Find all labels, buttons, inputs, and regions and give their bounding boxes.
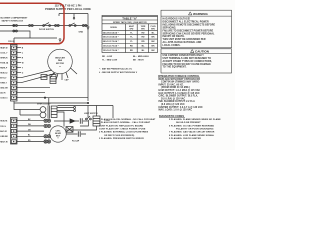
terminal contacts TB1 [13,47,14,98]
svg-text:6 FLASHES: 115 VAC POWER REVER: 6 FLASHES: 115 VAC POWER REVERSED [169,124,214,127]
wire xfmr secondary leads [57,108,74,111]
svg-text:SPD: SPD [141,28,145,30]
svg-text:24V-R: 24V-R [0,92,6,95]
table A [102,16,158,53]
svg-text:BK : HIGH: BK : HIGH [133,60,144,62]
svg-text:9 FLASHES: CHECK IGNITER: 9 FLASHES: CHECK IGNITER [169,137,201,140]
svg-text:CONT FLASH OFF: CHECK POWER /: CONT FLASH OFF: CHECK POWER / FUSE [99,128,146,131]
connector PL1 [13,25,15,27]
ground [79,32,84,34]
svg-text:INPUT: 25 VAC, 60 HZ.: INPUT: 25 VAC, 60 HZ. [159,83,184,86]
svg-text:CAP: CAP [65,79,70,82]
transformer T1 [40,107,46,113]
connector PL4 [82,25,84,27]
wire motor leads [50,68,77,80]
svg-text:TO THE EQUIPMENT.: TO THE EQUIPMENT. [163,67,187,69]
svg-text:LINE-BK: LINE-BK [0,136,8,138]
svg-text:FUSE-3A: FUSE-3A [0,62,9,65]
svg-text:RD: RD [130,50,134,52]
switch S2 [69,25,71,27]
svg-text:(FROM XFMR 40 VA MIN.): (FROM XFMR 40 VA MIN.) [161,86,190,89]
svg-text:SERVICING.: SERVICING. [163,27,177,29]
svg-text:HEAT: HEAT [129,25,135,28]
svg-text:2 FLASHES: EXTERNAL LOCKOUT (R: 2 FLASHES: EXTERNAL LOCKOUT (RETRIES [99,131,149,134]
wire main hot [0,25,88,27]
svg-text:RD: RD [141,41,145,43]
svg-text:TABLE "A": TABLE "A" [122,16,138,20]
svg-text:LIMIT SWITCH: LIMIT SWITCH [84,113,98,115]
terminal labels [0,47,9,100]
svg-text:IGNITER OUTPUT: 4.0-4.7 A @ 12: IGNITER OUTPUT: 4.0-4.7 A @ 120 VAC [159,106,204,109]
connector PL8 [44,135,47,138]
svg-text:INCLUDING REMOTE DISCONNECTS B: INCLUDING REMOTE DISCONNECTS BEFORE [163,24,216,26]
svg-text:* : MAY BE PRESENT (42-28-17): * : MAY BE PRESENT (42-28-17) [99,67,132,70]
svg-text:115 VOLT 60 HZ 1 PH: 115 VOLT 60 HZ 1 PH [55,3,82,7]
svg-text:DIAGNOSTIC CODES: DIAGNOSTIC CODES [159,115,184,118]
svg-text:CONT FLASH ON: REPLACE IFC BOA: CONT FLASH ON: REPLACE IFC BOARD [99,124,144,127]
svg-text:RD: RD [141,32,145,34]
svg-text:LOCAL CODES.: LOCAL CODES. [163,44,181,47]
node L1 bus [87,14,89,102]
terminal contacts TB2 [13,120,14,142]
svg-text:TWIN-T: TWIN-T [0,83,7,85]
integrated furnace control text [158,75,203,112]
svg-text:BK: BK [152,50,156,52]
svg-text:INTEGRATED FURNACE CONTROL: INTEGRATED FURNACE CONTROL [158,75,200,78]
blower compartment safety interlock label [1,17,29,23]
connector PL9 [44,140,47,143]
svg-text:DOOR SWITCH: DOOR SWITCH [39,29,54,31]
diode D1 arrow [70,119,75,123]
wire motor out [66,133,86,135]
svg-text:7 FLASHES: GAS VALVE CIRCUIT E: 7 FLASHES: GAS VALVE CIRCUIT ERROR [169,131,215,134]
svg-text:NEUT-W: NEUT-W [0,141,8,143]
svg-text:HAZARDOUS VOLTAGE!: HAZARDOUS VOLTAGE! [163,18,191,21]
table legend [99,56,149,74]
svg-text:FAILURE TO DO SO MAY CAUSE DAM: FAILURE TO DO SO MAY CAUSE DAMAGE [163,63,212,66]
power supply label [45,3,91,11]
svg-text:RD: RD [141,37,145,39]
svg-text:GND: GND [79,32,84,34]
svg-text:CAUTION: CAUTION [195,49,209,53]
svg-text:SPEED TAPS FOR (.) FAN MOTOR: SPEED TAPS FOR (.) FAN MOTOR [113,21,147,24]
svg-text:5 FLASHES: FLAME SENSED WHEN N: 5 FLASHES: FLAME SENSED WHEN NO FLAME [169,118,221,121]
svg-text:**: ** [57,138,59,140]
svg-text:SERVICING CAN CAUSE SEVERE PER: SERVICING CAN CAUSE SEVERE PERSONAL [163,32,216,35]
svg-text:BL : MED-HIGH: BL : MED-HIGH [133,56,149,58]
caution box W2 [161,49,232,73]
fuse F1 on feed [73,14,75,18]
svg-text:REPLACE WITH PART CNT04164 OR: REPLACE WITH PART CNT04164 OR [159,78,201,81]
resistor R2 [93,116,100,126]
svg-text:INDUCER: INDUCER [55,57,65,59]
wire diagonals to inducer [17,70,52,78]
wire xfmr feeds [14,98,88,127]
capacitor C1 box [41,75,47,80]
svg-text:ALL APPLICABLE NATIONAL AND: ALL APPLICABLE NATIONAL AND [163,41,202,44]
svg-text:120-16-170-04 *: 120-16-170-04 * [103,49,119,52]
diagnostic codes text [99,115,221,140]
capacitor C2 [78,131,80,136]
svg-text:IND. BLOWER OUTPUT: 2.2 FLA: IND. BLOWER OUTPUT: 2.2 FLA [159,100,196,103]
svg-text:THIS UNIT MUST BE GROUNDED PER: THIS UNIT MUST BE GROUNDED PER [163,39,206,41]
capacitor C3 [80,118,82,123]
connector PL5 [13,30,15,32]
svg-text:**: ** [59,66,61,68]
connector PL6 [44,119,47,122]
svg-text:ACCEPT OTHER TYPES OF CONDUCTO: ACCEPT OTHER TYPES OF CONDUCTORS, [163,60,213,63]
svg-text:BK: BK [152,46,156,48]
svg-text:INJURY OR DEATH.: INJURY OR DEATH. [163,35,186,38]
svg-text:060-10-154-04 *: 060-10-154-04 * [103,36,119,39]
svg-text:EXT-LT: EXT-LT [0,78,7,80]
ground symbol G1 [59,38,62,42]
svg-text:115V-L: 115V-L [0,126,7,128]
svg-text:# : MAY BE SUPPLY AIR THROUGH: # : MAY BE SUPPLY AIR THROUGH V [99,71,138,74]
svg-text:SAFETY INTERLOCK: SAFETY INTERLOCK [2,19,24,22]
svg-text:115V-N: 115V-N [8,41,15,43]
svg-text:SHOULD BE PRESENT: SHOULD BE PRESENT [176,122,201,124]
svg-text:EAC-E1: EAC-E1 [0,130,7,133]
connector PL7 [44,124,47,127]
svg-text:DISCONNECT ALL ELECTRICAL POWE: DISCONNECT ALL ELECTRICAL POWER [163,20,209,23]
svg-text:UNIT TERMINALS ARE NOT DESIGNE: UNIT TERMINALS ARE NOT DESIGNED TO [163,57,212,60]
svg-text:BK: BK [152,37,156,39]
terminal strip TB1 [11,45,18,102]
svg-text:PL/CAP: PL/CAP [72,140,80,143]
svg-text:CONT04164 (TIMINGS MAY VARY): CONT04164 (TIMINGS MAY VARY) [161,81,199,84]
svg-text:100-14-170-04 *: 100-14-170-04 * [103,45,119,48]
svg-text:COM-C1: COM-C1 [0,98,7,100]
relay K1 box [66,127,73,133]
svg-text:3 FLASHES: PRESSURE SWITCH ERR: 3 FLASHES: PRESSURE SWITCH ERROR [99,137,144,140]
svg-text:XFMR-R: XFMR-R [0,58,8,60]
node junction J1 [44,97,45,98]
svg-text:SPD: SPD [151,28,155,30]
svg-text:20.0 LRA) @ 120 VAC: 20.0 LRA) @ 120 VAC [161,97,186,100]
svg-text:SPD: SPD [129,28,133,30]
motor M2 circulating blower [50,126,66,142]
wire common run [17,93,88,98]
svg-text:FAILURE TO DISCONNECT POWER BE: FAILURE TO DISCONNECT POWER BEFORE [163,29,214,32]
svg-text:BLOWER COMPARTMENT: BLOWER COMPARTMENT [1,17,29,20]
resistor R1 heater [50,75,56,84]
svg-text:OR RECYCLES EXCEEDED): OR RECYCLES EXCEEDED) [104,135,134,137]
svg-text:MAX. LOAD: 1.0 A @ 120 VAC: MAX. LOAD: 1.0 A @ 120 VAC [159,109,193,112]
svg-text:040-08-154-04 *: 040-08-154-04 * [103,31,119,34]
svg-text:1 FLASH ON FAST: NORMAL - CALL: 1 FLASH ON FAST: NORMAL - CALL FOR HEAT [99,121,151,124]
door switch S1 [43,25,45,27]
svg-text:HUM OUTPUT: 1.0 A MAX @ 115 VA: HUM OUTPUT: 1.0 A MAX @ 115 VAC [159,89,201,92]
wire L2 [58,106,114,119]
svg-text:MOTOR: MOTOR [56,63,64,65]
node junction J2 [87,102,88,103]
svg-text:POLARITY OR POOR GROUNDING: POLARITY OR POOR GROUNDING [176,128,214,131]
svg-text:EAC OUTPUT: 1.0 A MAX @ 115 VA: EAC OUTPUT: 1.0 A MAX @ 115 VAC [159,92,201,95]
svg-text:8 FLASHES: LOW FLAME SENSE SIG: 8 FLASHES: LOW FLAME SENSE SIGNAL [169,134,215,137]
svg-text:COOL-Y: COOL-Y [0,53,8,55]
motor M1 inducer fan [48,49,73,74]
svg-text:YL : MED LOW: YL : MED LOW [102,60,117,62]
svg-text:GND-GR: GND-GR [0,88,8,90]
svg-text:RD : LOW: RD : LOW [102,56,112,58]
svg-text:HEAT-W: HEAT-W [0,47,8,50]
svg-text:WARNING: WARNING [193,12,208,16]
svg-text:FAN: FAN [58,59,63,62]
wire neutral [0,31,57,45]
svg-text:1 FLASH ON SLOW: NORMAL - NO C: 1 FLASH ON SLOW: NORMAL - NO CALL FOR HE… [99,118,156,121]
svg-text:MODEL: MODEL [110,27,118,29]
svg-text:CIRC. BLOWER OUTPUT: (6.5 FLA,: CIRC. BLOWER OUTPUT: (6.5 FLA, [159,95,199,98]
terminal strip TB2 lower [11,118,18,145]
wire L1 top feed [59,13,88,15]
wire lower runs [17,121,44,142]
svg-text:POWER SUPPLY PER LOCAL CODE: POWER SUPPLY PER LOCAL CODE [45,7,91,11]
svg-text:HUM-C2: HUM-C2 [0,73,7,75]
warning box W1 [161,10,232,48]
annotation red box [0,3,64,44]
limit switch S3 [84,113,98,115]
svg-text:W: W [22,63,24,65]
wire terminal stubs [17,48,21,73]
svg-text:USE COPPER CONDUCTORS ONLY!: USE COPPER CONDUCTORS ONLY! [163,55,204,57]
connector PL2 [29,25,31,27]
svg-text:(3.6 LRA) @ 120 VAC: (3.6 LRA) @ 120 VAC [161,103,185,106]
wire color labels [28,119,32,142]
svg-text:PARK-P: PARK-P [0,67,8,70]
svg-text:BK: BK [152,41,156,43]
svg-text:080-12-170-04 *: 080-12-170-04 * [103,40,119,43]
connector PL3 [55,25,57,27]
svg-text:HUM-H1: HUM-H1 [0,121,7,123]
svg-text:RD: RD [130,46,134,48]
